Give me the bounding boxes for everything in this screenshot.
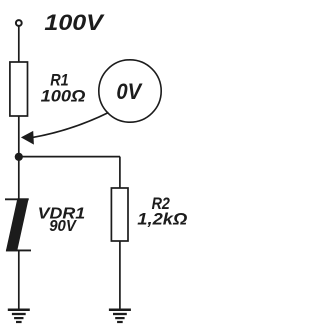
svg-text:0V: 0V (116, 79, 143, 104)
svg-text:100Ω: 100Ω (41, 87, 86, 105)
svg-text:90V: 90V (49, 218, 77, 235)
svg-text:1,2kΩ: 1,2kΩ (137, 210, 187, 228)
svg-text:100V: 100V (44, 10, 105, 35)
